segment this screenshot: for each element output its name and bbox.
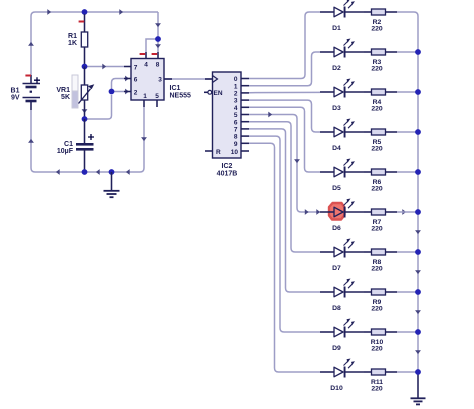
node A bbox=[82, 9, 88, 15]
resistor R2 bbox=[364, 11, 372, 13]
wire out9 bbox=[249, 143, 320, 372]
svg-text:1: 1 bbox=[143, 93, 147, 100]
wire bbox=[146, 39, 150, 52]
wire bbox=[47, 9, 51, 15]
pin 6 bbox=[241, 121, 249, 123]
svg-text:6: 6 bbox=[134, 77, 138, 84]
wire out1 bbox=[249, 52, 320, 86]
svg-text:D5: D5 bbox=[332, 185, 341, 192]
node rail8 bbox=[415, 329, 421, 335]
LED D7 bbox=[320, 251, 334, 253]
svg-text:220: 220 bbox=[371, 185, 383, 192]
resistor R5 bbox=[364, 131, 372, 133]
svg-text:7: 7 bbox=[234, 127, 238, 134]
wire bbox=[397, 131, 418, 133]
svg-text:4: 4 bbox=[144, 62, 148, 69]
pin 8 level bbox=[152, 53, 158, 55]
svg-text:IC1: IC1 bbox=[170, 85, 181, 92]
wire bbox=[150, 38, 158, 40]
wire bbox=[112, 91, 125, 93]
LED D10 bbox=[320, 371, 334, 373]
svg-text:D2: D2 bbox=[332, 65, 341, 72]
wire bbox=[30, 16, 32, 75]
svg-text:220: 220 bbox=[371, 345, 383, 352]
wire out8 bbox=[249, 136, 320, 332]
node rail6 bbox=[415, 249, 421, 255]
svg-text:4: 4 bbox=[234, 105, 238, 112]
svg-text:R1: R1 bbox=[68, 33, 77, 40]
pin 7 bbox=[241, 128, 249, 130]
svg-text:4017B: 4017B bbox=[217, 171, 238, 178]
node rail1 bbox=[415, 49, 421, 55]
node D bbox=[82, 169, 88, 175]
svg-text:220: 220 bbox=[371, 305, 383, 312]
wire ground rail bbox=[414, 12, 418, 372]
resistor R3 bbox=[364, 51, 372, 53]
svg-text:3: 3 bbox=[234, 98, 238, 105]
svg-text:2: 2 bbox=[234, 91, 238, 98]
svg-text:D10: D10 bbox=[330, 385, 343, 392]
svg-text:220: 220 bbox=[371, 265, 383, 272]
node rail4 bbox=[415, 169, 421, 175]
pin 4 level bbox=[140, 53, 146, 55]
resistor R6 bbox=[364, 171, 372, 173]
pin 3 bbox=[241, 99, 249, 101]
wire bbox=[397, 211, 418, 213]
svg-text:5: 5 bbox=[234, 112, 238, 119]
svg-text:1K: 1K bbox=[68, 40, 77, 47]
pin 1 bbox=[241, 85, 249, 87]
pin 0 bbox=[241, 78, 249, 80]
LED D8 bbox=[320, 291, 334, 293]
svg-text:D6: D6 bbox=[332, 225, 341, 232]
wire bbox=[397, 371, 418, 373]
svg-text:D3: D3 bbox=[332, 105, 341, 112]
wire bbox=[30, 110, 32, 168]
wire bbox=[85, 66, 125, 68]
svg-text:C1: C1 bbox=[64, 141, 73, 148]
LED D1 bbox=[320, 11, 334, 13]
wire bbox=[397, 251, 418, 253]
svg-text:9V: 9V bbox=[11, 95, 20, 102]
resistor R9 bbox=[364, 291, 372, 293]
wire bbox=[85, 95, 112, 119]
svg-text:10µF: 10µF bbox=[57, 148, 74, 155]
svg-text:D8: D8 bbox=[332, 305, 341, 312]
pin 8 bbox=[241, 135, 249, 137]
svg-text:2: 2 bbox=[134, 90, 138, 97]
svg-text:220: 220 bbox=[371, 25, 383, 32]
pin 10 bbox=[241, 150, 249, 152]
node rail2 bbox=[415, 89, 421, 95]
svg-text:220: 220 bbox=[371, 385, 383, 392]
LED D3 bbox=[320, 91, 334, 93]
wire bbox=[397, 331, 418, 333]
resistor R8 bbox=[364, 251, 372, 253]
pin EN bbox=[204, 91, 208, 93]
wire bbox=[112, 79, 125, 92]
LED D6 glow bbox=[329, 203, 345, 220]
wire bbox=[31, 168, 140, 172]
svg-text:8: 8 bbox=[156, 62, 160, 69]
svg-text:D7: D7 bbox=[332, 265, 341, 272]
svg-text:3: 3 bbox=[158, 77, 162, 84]
node F bbox=[109, 89, 115, 95]
LED D5 bbox=[320, 171, 334, 173]
node B bbox=[82, 64, 88, 70]
wire bbox=[157, 12, 159, 39]
LED D6 bbox=[320, 211, 334, 213]
pin 9 bbox=[241, 142, 249, 144]
svg-text:D4: D4 bbox=[332, 145, 341, 152]
svg-text:220: 220 bbox=[371, 65, 383, 72]
node rail9 bbox=[415, 369, 421, 375]
ground bbox=[417, 372, 419, 398]
potentiometer VR1 bbox=[84, 67, 86, 86]
resistor R11 bbox=[364, 371, 372, 373]
svg-text:220: 220 bbox=[371, 105, 383, 112]
svg-text:1: 1 bbox=[234, 83, 238, 90]
svg-text:B1: B1 bbox=[11, 88, 20, 95]
LED D9 bbox=[320, 331, 334, 333]
node rail7 bbox=[415, 289, 421, 295]
pin 2 bbox=[241, 92, 249, 94]
node rail5 bbox=[415, 209, 421, 215]
pin 4 bbox=[241, 106, 249, 108]
svg-text:8: 8 bbox=[234, 134, 238, 141]
svg-text:5: 5 bbox=[155, 93, 159, 100]
wire out6 bbox=[249, 122, 320, 252]
pin 5 bbox=[241, 114, 249, 116]
node rail3 bbox=[415, 129, 421, 135]
capacitor C1 bbox=[84, 119, 86, 143]
svg-text:NE555: NE555 bbox=[170, 93, 192, 100]
wire bbox=[140, 107, 144, 172]
wire out5 bbox=[249, 115, 320, 213]
LED D2 bbox=[320, 51, 334, 53]
wire bbox=[397, 171, 418, 173]
battery B1 bbox=[30, 75, 32, 84]
svg-text:6: 6 bbox=[234, 119, 238, 126]
svg-text:R: R bbox=[216, 149, 221, 156]
wire out3 bbox=[249, 100, 320, 132]
svg-text:EN: EN bbox=[214, 90, 223, 97]
svg-text:VR1: VR1 bbox=[56, 87, 70, 94]
svg-text:IC2: IC2 bbox=[222, 163, 233, 170]
resistor R7 bbox=[364, 211, 372, 213]
wire out4 bbox=[249, 107, 320, 172]
svg-text:9: 9 bbox=[234, 141, 238, 148]
svg-text:D1: D1 bbox=[332, 25, 341, 32]
wire bbox=[397, 51, 418, 53]
pin R bbox=[205, 150, 213, 152]
wire bbox=[397, 91, 418, 93]
wire bbox=[157, 39, 159, 52]
wire out0 bbox=[249, 12, 320, 79]
svg-text:D9: D9 bbox=[332, 345, 341, 352]
resistor R4 bbox=[364, 91, 372, 93]
wire bbox=[397, 291, 418, 293]
node G bbox=[155, 36, 161, 42]
svg-text:5K: 5K bbox=[61, 94, 70, 101]
resistor R1 bbox=[84, 14, 86, 32]
ground bbox=[111, 172, 113, 191]
wire out2 bbox=[249, 91, 320, 93]
op-amp U1: IC1 NE555 timer bbox=[131, 59, 164, 101]
svg-text:7: 7 bbox=[134, 65, 138, 72]
svg-text:220: 220 bbox=[371, 225, 383, 232]
svg-text:220: 220 bbox=[371, 145, 383, 152]
wire bbox=[268, 112, 272, 118]
node E bbox=[109, 169, 115, 175]
wire bbox=[164, 78, 213, 80]
resistor R10 bbox=[364, 331, 372, 333]
wire bbox=[31, 12, 158, 16]
op-amp U2: IC2 4017B counter bbox=[213, 72, 242, 158]
svg-text:10: 10 bbox=[231, 149, 239, 156]
node C bbox=[82, 116, 88, 122]
wire out7 bbox=[249, 129, 320, 292]
svg-text:0: 0 bbox=[234, 76, 238, 83]
wire bbox=[397, 11, 414, 13]
LED D4 bbox=[320, 131, 334, 133]
